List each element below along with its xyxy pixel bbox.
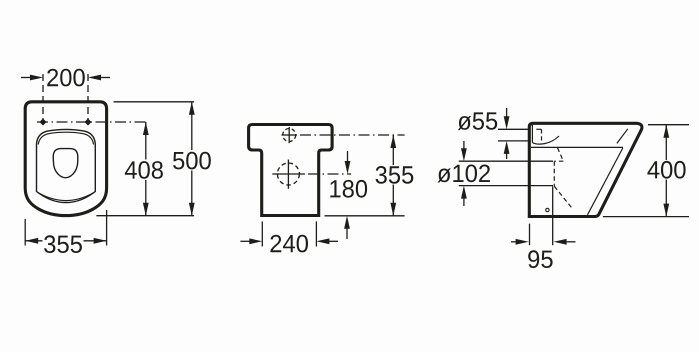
dim 240 ext right	[315, 221, 317, 246]
dim 240 right arrow	[329, 240, 339, 242]
dim 355 ext right	[106, 210, 108, 246]
rim line	[531, 146, 623, 148]
dim 355b line	[392, 135, 394, 216]
o102 text	[438, 165, 490, 183]
dim 95 ext right	[552, 186, 554, 245]
bowl opening	[53, 149, 78, 178]
dim 500 text	[172, 150, 213, 171]
dim 408 text	[125, 160, 164, 181]
outlet crosshair vertical	[287, 160, 289, 189]
side view outline	[529, 123, 642, 216]
inlet solid edge	[531, 125, 533, 143]
inlet circle o55	[283, 129, 296, 142]
ext line 400 bottom	[603, 216, 689, 218]
dim 200 right arrow	[100, 77, 110, 79]
o102 ext line top	[459, 160, 553, 162]
dim 95 left arrow	[511, 241, 516, 243]
dim 355 line	[25, 240, 106, 242]
trap connector	[554, 160, 563, 162]
trap vertical (outlet face)	[553, 161, 555, 186]
dim 180 top arrow	[347, 151, 349, 162]
inlet dashed edge	[541, 129, 543, 141]
inlet top dash	[536, 128, 543, 130]
dim 240 ext left	[261, 221, 263, 246]
dim 180 text	[330, 180, 367, 198]
outlet crosshair horizontal	[272, 173, 305, 175]
fixing hole left	[40, 119, 46, 125]
dim 355 ext left	[24, 219, 26, 246]
dim 200 text	[47, 69, 85, 87]
dim 95 text	[528, 250, 552, 268]
o55 ext line top	[498, 128, 530, 130]
centerline big circle	[308, 173, 351, 175]
inlet crosshair vertical	[288, 127, 290, 143]
dim 200 left arrow	[21, 77, 31, 79]
ext line top (500)	[114, 101, 194, 103]
dim 200 ext line left	[42, 74, 44, 128]
inlet crosshair horizontal	[282, 134, 298, 136]
outlet circle o102	[277, 163, 299, 185]
dim 95 ext left	[529, 224, 531, 246]
dim 400 line	[665, 125, 667, 217]
dim 400 text	[646, 160, 688, 180]
o55 ext line bottom	[498, 140, 530, 142]
flush spout curve	[532, 136, 559, 144]
dim 200 ext line right	[87, 74, 89, 128]
inner front slant	[588, 148, 623, 215]
top view outline	[25, 102, 106, 216]
dim 408 line	[145, 122, 147, 216]
o102 bottom arrow	[463, 198, 465, 206]
dim 240 left arrow	[240, 240, 250, 242]
seat inner top arc	[38, 132, 93, 144]
dim 355b text	[373, 165, 416, 185]
dim 95 right arrow	[566, 241, 575, 243]
ext line bottom (500/408)	[96, 215, 194, 217]
fixing hole right	[85, 119, 91, 125]
lid gap line	[617, 129, 628, 144]
dim 240 text	[270, 235, 308, 253]
o102 ext line bottom	[459, 185, 553, 187]
o55 top arrow	[506, 108, 508, 117]
o102 top arrow	[463, 141, 465, 149]
ext line bottom middle	[325, 215, 405, 217]
seat outline	[37, 129, 96, 202]
dim 355 text	[43, 233, 84, 254]
trap slant upper	[558, 148, 564, 161]
trap slant lower	[554, 186, 572, 208]
o55 text	[458, 112, 497, 130]
centerline small circle	[300, 134, 405, 136]
centerline through holes	[37, 121, 148, 123]
front view outline	[249, 125, 333, 216]
small drain hole	[546, 208, 549, 211]
dim 180 bottom arrow	[346, 228, 348, 239]
ext line 400 top	[648, 124, 689, 126]
dim 500 line	[191, 102, 193, 216]
o55 bottom arrow	[506, 153, 508, 159]
seat inner bottom arc	[38, 193, 94, 201]
